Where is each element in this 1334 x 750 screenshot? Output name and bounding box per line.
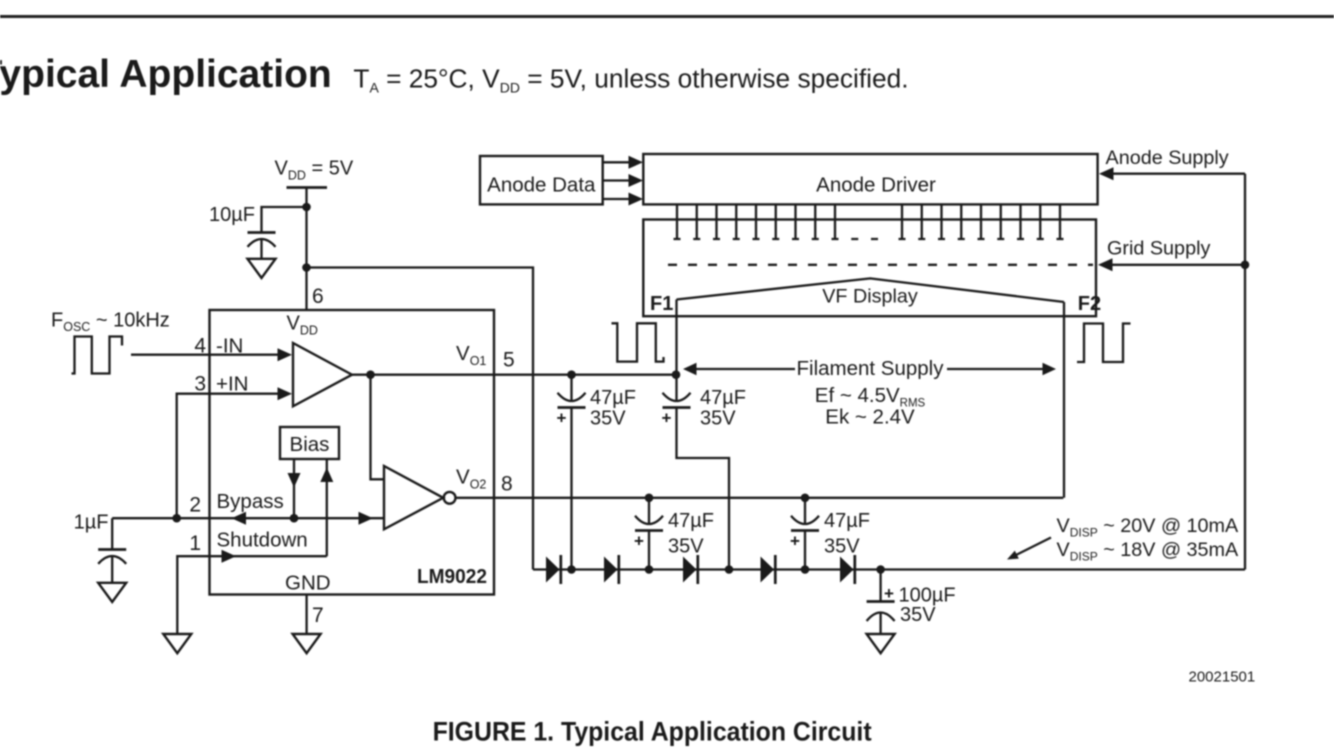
svg-text:35V: 35V <box>668 536 704 558</box>
svg-text:8: 8 <box>501 473 513 496</box>
wire pin3 inside <box>210 393 281 395</box>
svg-text:F2: F2 <box>1078 293 1101 315</box>
node junction VDISP/C7 <box>876 565 885 574</box>
op-amp A2 inverting buffer <box>384 466 443 529</box>
VDD supply bar <box>287 186 328 189</box>
svg-text:VDD = 5V: VDD = 5V <box>275 158 354 183</box>
svg-text:Anode Driver: Anode Driver <box>816 174 936 197</box>
svg-text:20021501: 20021501 <box>1189 669 1256 686</box>
node junction D1/C3 <box>567 565 576 574</box>
node junction bypass/+IN <box>172 514 181 523</box>
wire A1 output down to buffer A2 <box>371 375 385 480</box>
svg-text:7: 7 <box>312 604 324 627</box>
inversion bubble A2 <box>444 492 456 504</box>
ground C7 <box>867 634 895 653</box>
svg-text:Anode Supply: Anode Supply <box>1106 147 1229 169</box>
diode D4 <box>761 555 776 584</box>
wire VO1 output <box>352 374 676 376</box>
capacitor C3 47uF <box>558 375 586 570</box>
svg-text:Grid Supply: Grid Supply <box>1107 238 1210 260</box>
filament supply annotation arrows <box>691 368 795 370</box>
svg-text:VO2: VO2 <box>456 466 486 492</box>
node junction D4/C6 <box>801 565 810 574</box>
top rule <box>0 15 1334 18</box>
svg-text:35V: 35V <box>900 604 936 626</box>
svg-text:6: 6 <box>312 285 324 308</box>
ground pin 7 <box>293 634 321 653</box>
node junction VO2/C5 <box>645 494 654 503</box>
component VF Display box <box>643 220 1096 317</box>
wire to capacitor C1 <box>262 207 307 233</box>
filament wire tent <box>677 278 1065 302</box>
diode D1 <box>546 555 561 584</box>
svg-text:35V: 35V <box>700 408 736 430</box>
dashed grid line <box>674 238 881 240</box>
wire Bias left leg down <box>293 459 295 518</box>
capacitor C6 47uF <box>791 498 819 570</box>
node junction VO1/F1/C4 <box>672 370 681 379</box>
svg-text:Ek ~ 2.4V: Ek ~ 2.4V <box>825 406 915 429</box>
component Anode Driver box <box>643 154 1097 204</box>
node junction grid/anode supply <box>1241 261 1250 270</box>
grid pins comb right <box>902 204 1060 239</box>
svg-text:+: + <box>884 584 894 603</box>
grid pins comb left <box>677 204 835 239</box>
arrowhead up on bias right leg <box>320 468 333 483</box>
ground C2 <box>98 583 126 602</box>
wire F2 down <box>1063 302 1065 498</box>
wire VDD down to pin 6 <box>305 188 307 311</box>
svg-text:2: 2 <box>189 494 201 517</box>
node junction VO1/C3 <box>567 370 576 379</box>
capacitor C4 47uF <box>663 375 730 570</box>
diode D5 <box>840 555 855 584</box>
diode D3 <box>683 555 698 584</box>
wire F1 down <box>675 300 677 375</box>
arrowhead grid supply <box>1098 258 1113 271</box>
capacitor C2 1uF <box>98 518 126 582</box>
svg-text:4: 4 <box>194 335 206 358</box>
waveform at F1 <box>612 323 664 361</box>
wire Bypass net <box>112 517 384 519</box>
wire VDD junction right and down to diode chain <box>307 268 534 570</box>
ground shutdown <box>163 634 191 653</box>
waveform FOSC square wave <box>72 337 123 374</box>
wire grid supply <box>1110 264 1245 266</box>
svg-text:+: + <box>557 409 567 428</box>
arrowhead bypass right <box>359 512 374 525</box>
arrowhead into op-amp A1 +IN <box>278 387 293 400</box>
wire anode supply <box>1110 173 1245 175</box>
wire anode data arrow 3 <box>603 198 631 200</box>
svg-text:FIGURE 1. Typical Application: FIGURE 1. Typical Application Circuit <box>433 717 872 747</box>
svg-text:47µF: 47µF <box>824 510 870 532</box>
wire anode data arrow 1 <box>603 161 631 163</box>
svg-text:VDD: VDD <box>287 313 318 338</box>
svg-text:-IN: -IN <box>216 335 243 358</box>
component Bias box <box>280 427 339 459</box>
dashed anode line <box>668 264 1093 266</box>
svg-text:+IN: +IN <box>216 373 248 396</box>
svg-text:Typical Application: Typical Application <box>0 53 332 96</box>
svg-text:47µF: 47µF <box>700 387 746 409</box>
svg-text:3: 3 <box>194 373 206 396</box>
ground C1 <box>248 259 276 278</box>
svg-text:Anode Data: Anode Data <box>487 174 596 197</box>
arrowhead down on bias leg <box>288 473 301 488</box>
svg-text:Shutdown: Shutdown <box>217 529 308 552</box>
svg-text:VDISP ~ 18V @ 35mA: VDISP ~ 18V @ 35mA <box>1057 539 1240 564</box>
svg-text:Bypass: Bypass <box>217 490 284 513</box>
wire pin 4 input <box>131 354 280 356</box>
capacitor C7 100uF <box>867 570 895 634</box>
svg-text:Filament Supply: Filament Supply <box>797 357 945 380</box>
svg-text:5: 5 <box>503 349 515 372</box>
svg-text:1µF: 1µF <box>74 512 109 534</box>
capacitor C5 47uF <box>635 498 663 570</box>
waveform at F2 <box>1077 324 1131 363</box>
node junction bypass/bias <box>290 514 299 523</box>
svg-text:LM9022: LM9022 <box>417 565 487 588</box>
node junction VDD branch right <box>302 263 311 272</box>
svg-text:TA = 25°C, VDD = 5V, unless ot: TA = 25°C, VDD = 5V, unless otherwise sp… <box>353 64 908 96</box>
arrowhead shutdown right <box>222 550 237 563</box>
svg-text:47µF: 47µF <box>590 387 636 409</box>
annotation arrow VDISP <box>1016 538 1051 556</box>
svg-text:+: + <box>790 532 800 551</box>
svg-text:47µF: 47µF <box>668 510 714 532</box>
svg-text:VF Display: VF Display <box>822 286 918 308</box>
wire anode data arrow 2 <box>603 179 631 181</box>
svg-text:Bias: Bias <box>290 433 330 456</box>
svg-text:+: + <box>662 409 672 428</box>
wire Shutdown net <box>177 556 326 634</box>
wire diode chain bottom <box>533 568 1245 570</box>
arrowhead bypass left <box>232 512 247 525</box>
node junction VO2/C6 <box>801 494 810 503</box>
capacitor C1 10uF <box>248 233 276 259</box>
wire pin 3 to bypass node <box>177 394 210 519</box>
svg-text:GND: GND <box>285 572 331 595</box>
svg-text:VO1: VO1 <box>456 342 486 368</box>
arrowhead anode supply <box>1099 167 1114 180</box>
node junction A1 output <box>366 370 375 379</box>
svg-text:F1: F1 <box>650 293 673 315</box>
svg-text:35V: 35V <box>590 408 626 430</box>
svg-text:VDISP ~ 20V @ 10mA: VDISP ~ 20V @ 10mA <box>1057 515 1240 540</box>
node junction VDD-C1 <box>302 203 311 212</box>
node junction D2/C5 <box>645 565 654 574</box>
arrowhead into op-amp A1 -IN <box>278 348 293 361</box>
svg-text:+: + <box>634 532 644 551</box>
op-amp IC U1 LM9022 box <box>210 310 495 595</box>
node junction D3/C4 <box>725 565 734 574</box>
svg-text:FOSC ~ 10kHz: FOSC ~ 10kHz <box>51 309 170 334</box>
wire Bias right leg down to shutdown <box>326 459 328 556</box>
svg-text:10µF: 10µF <box>209 204 255 226</box>
wire VO2 output <box>456 497 1064 499</box>
wire pin 7 <box>305 595 307 635</box>
svg-text:35V: 35V <box>824 536 860 558</box>
op-amp A1 <box>293 343 352 406</box>
svg-text:1: 1 <box>189 532 201 555</box>
wire right supply vertical <box>1244 174 1246 570</box>
component Anode Data box <box>480 156 603 204</box>
diode D2 <box>604 555 619 584</box>
